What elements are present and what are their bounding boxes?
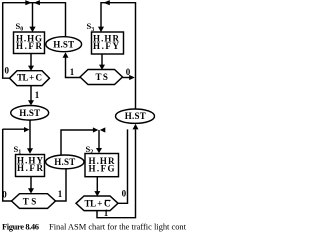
wire top-left horizontal [3,2,66,4]
wire right bus oval to top and into S3 [101,3,136,110]
arrowhead S1-loop junction (pointing right) [24,127,30,132]
arrowhead into S0 [29,27,35,33]
svg-text:1: 1 [70,67,75,77]
decision hexagon TL+C [10,71,50,86]
state box S1 [16,155,45,177]
wire S1 loop horizontal [3,128,25,130]
decision hexagon TL+Cbar [76,196,118,211]
svg-text:0: 0 [4,66,9,76]
arrowhead into S1 [27,148,33,154]
arrowhead S2 junction from left (pointing right) [93,127,99,132]
wire left vertical lower (S1 loop) [3,129,12,201]
svg-text:1: 1 [35,90,40,100]
wire S1 to decision TS [30,177,32,190]
svg-text:Figure 8.46: Figure 8.46 [2,221,39,231]
wire left vertical upper (S0 loop) [3,2,10,78]
svg-text:H.ST: H.ST [125,111,146,121]
svg-text:H.FR: H.FR [16,41,43,51]
oval H.ST middle [46,155,84,169]
svg-text:H.FR: H.FR [17,163,44,173]
state box S0 [14,32,45,54]
wire top-middle oval up [65,2,67,36]
arrowhead into TL+Cbar [94,191,100,196]
overbar on C of TL+Cbar [105,199,111,201]
junction arrow right (pointing left) at top-left [34,0,40,5]
oval H.ST left-middle [11,106,49,121]
svg-text:0: 0 [2,190,7,200]
state box S3 [92,32,124,54]
oval H.ST right-middle [116,109,155,123]
wire S2 to decision TL+Cbar [96,177,98,193]
svg-text:1: 1 [104,208,109,218]
wire TL+C 1-branch to oval [30,86,32,102]
svg-text:0: 0 [122,188,127,198]
svg-text:Final ASM chart for the traffi: Final ASM chart for the traffic light co… [49,221,186,231]
wire TL+Cbar 1-branch bottom [97,130,136,218]
svg-text:TL + C: TL + C [17,73,42,83]
wire oval to S1 [29,120,31,149]
svg-text:H.ST: H.ST [19,108,40,118]
junction arrow left (pointing right) at top-left [25,0,31,5]
decision hexagon TS bottom-left [12,194,56,209]
svg-text:H.ST: H.ST [54,157,75,167]
oval H.ST top-middle [46,37,82,52]
arrowhead into TS bottom [28,188,34,193]
svg-text:H.ST: H.ST [53,39,74,49]
svg-text:H.FG: H.FG [89,164,115,174]
svg-text:H.FY: H.FY [93,41,120,51]
wire junction drop into S0 [32,3,34,28]
wire S0 to decision TL+C [30,54,32,68]
arrowhead into TS top [99,65,105,70]
wire TS top 0-branch [123,77,130,79]
caption [2,221,187,231]
state box S2 [85,154,119,177]
wire TL+Cbar 0-branch loop [118,129,128,203]
arrowhead into TL+C [28,66,34,71]
wire TS bottom 1-branch [56,168,67,201]
arrowhead TS top 0-branch (pointing right) [129,75,135,80]
arrowhead into left H.ST oval [28,100,34,105]
arrowhead into S3 [98,27,104,33]
arrowhead into top-middle oval (up) [63,52,69,58]
wire middle oval up to S2 junction [61,130,93,156]
arrowhead into S2 [96,148,102,153]
wire TS top 1-branch to oval [66,57,81,78]
wire S3 to decision TS [101,54,103,66]
arrowhead S2 junction from right (pointing left) [100,127,106,132]
arrowhead on top-right horizontal (pointing left) [103,0,110,5]
svg-text:0: 0 [126,67,131,77]
wire S2 junction drop [98,130,100,148]
svg-text:1: 1 [58,189,63,199]
arrowhead into right H.ST oval (up) [133,124,139,129]
decision hexagon TS top-right [80,70,123,85]
